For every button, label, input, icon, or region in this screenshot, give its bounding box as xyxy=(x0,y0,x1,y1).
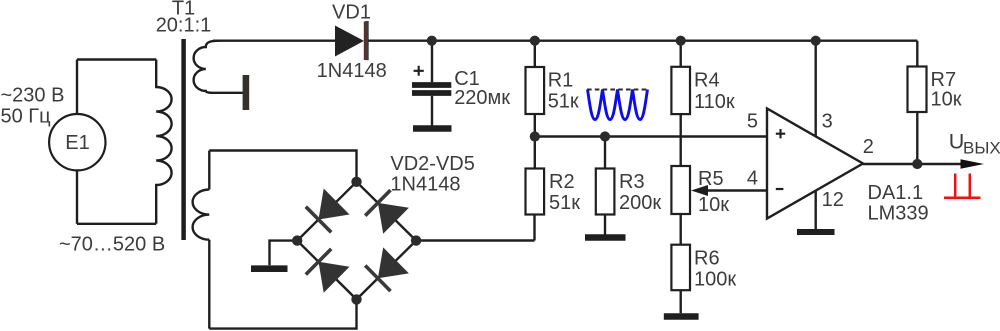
junction node R3-plus wire xyxy=(600,131,610,141)
svg-text:51к: 51к xyxy=(548,91,579,113)
resistor R3 bottom lead xyxy=(604,215,606,235)
svg-text:R3: R3 xyxy=(619,171,645,193)
bridge diode VD lower-right xyxy=(378,247,409,278)
op-amp minus sign xyxy=(776,188,784,190)
transformer T1 core xyxy=(181,39,186,240)
junction node R1-R2-plus wire xyxy=(530,131,540,141)
red output pulses icon xyxy=(944,174,981,198)
resistor R7 bottom lead xyxy=(916,112,918,164)
svg-text:10к: 10к xyxy=(698,194,729,216)
wire R5 wiper to minus input xyxy=(706,189,767,191)
ground under C1 xyxy=(413,125,452,131)
svg-text:LM339: LM339 xyxy=(868,202,929,224)
junction node rail-R4 xyxy=(676,36,686,46)
svg-text:4: 4 xyxy=(747,168,758,190)
bridge loop top wire xyxy=(209,151,356,182)
resistor R4 top lead xyxy=(680,41,682,67)
resistor R2 bottom lead xyxy=(533,215,535,241)
svg-text:R1: R1 xyxy=(548,70,574,92)
junction node bridge right xyxy=(411,235,421,245)
junction node bridge left xyxy=(292,235,302,245)
capacitor C1 top lead xyxy=(431,41,433,82)
svg-text:ВЫХ: ВЫХ xyxy=(963,139,1000,158)
junction node bridge top xyxy=(351,177,361,187)
wire top rail left of VD1 xyxy=(213,40,335,42)
resistor R2 body xyxy=(526,169,545,215)
svg-text:51к: 51к xyxy=(549,192,580,214)
svg-text:DA1.1: DA1.1 xyxy=(868,182,924,204)
output arrowhead xyxy=(961,159,985,168)
capacitor C1 bottom lead xyxy=(431,96,433,126)
resistor R1 body xyxy=(526,67,545,114)
junction node rail-C1 xyxy=(427,36,437,46)
svg-text:50 Гц: 50 Гц xyxy=(1,106,51,128)
svg-text:R6: R6 xyxy=(694,248,720,270)
ground under op-amp xyxy=(797,229,835,235)
capacitor C1 plus sign xyxy=(414,66,424,76)
resistor R3 top lead xyxy=(604,137,606,169)
wire top rail right of VD1 xyxy=(368,40,917,42)
bridge diode VD upper-right cathode bar xyxy=(365,190,390,216)
junction node rail-R1 xyxy=(530,36,540,46)
wire bridge right corner to R2 xyxy=(416,239,534,241)
bridge loop left lower wire xyxy=(208,240,210,329)
svg-text:1N4148: 1N4148 xyxy=(390,173,460,195)
svg-text:12: 12 xyxy=(822,189,844,211)
resistor R6 body xyxy=(671,245,690,291)
wire plus-input rail xyxy=(535,135,767,137)
bridge diode VD lower-right cathode bar xyxy=(365,266,390,292)
wire R4 to R5 xyxy=(680,114,682,166)
ground under R3 xyxy=(585,234,626,241)
svg-text:100к: 100к xyxy=(694,269,736,291)
bridge diamond wires xyxy=(297,182,416,300)
bridge loop left upper wire xyxy=(208,151,210,190)
resistor R1 top lead xyxy=(534,41,536,67)
wire R5 to R6 xyxy=(680,214,682,245)
svg-text:VD2-VD5: VD2-VD5 xyxy=(390,153,474,175)
R7 top lead is rail drop xyxy=(908,67,927,113)
svg-text:200к: 200к xyxy=(619,192,661,214)
bridge diode VD upper-left cathode bar xyxy=(306,207,331,233)
svg-text:2: 2 xyxy=(863,136,874,158)
bridge diode VD lower-left xyxy=(319,262,350,293)
resistor R6 bottom lead xyxy=(680,290,682,313)
wire top rail drop to R7 xyxy=(916,41,918,67)
generator E1 loop left wire xyxy=(76,60,78,115)
svg-text:3: 3 xyxy=(822,111,833,133)
svg-text:20:1:1: 20:1:1 xyxy=(156,15,212,37)
wire R1 to R2 through node xyxy=(534,114,536,169)
generator E1 loop bottom wire xyxy=(77,223,156,225)
junction node output-R7 xyxy=(912,159,922,169)
op-amp plus sign xyxy=(776,129,785,138)
svg-text:110к: 110к xyxy=(694,91,735,113)
blue sawtooth waveform xyxy=(588,90,648,120)
generator E1 circle xyxy=(49,114,105,170)
svg-text:10к: 10к xyxy=(931,88,962,110)
resistor R4 body xyxy=(671,67,690,114)
svg-text:~70…520 В: ~70…520 В xyxy=(59,234,165,256)
ground under R6 xyxy=(664,313,699,319)
resistor R3 body xyxy=(596,169,615,215)
op-amp pin3 wire xyxy=(815,41,817,137)
transformer T1 primary winding xyxy=(156,60,171,224)
bridge ground wire xyxy=(270,241,298,266)
bridge diode VD upper-right xyxy=(378,203,409,234)
op-amp pin12 wire xyxy=(815,191,817,229)
diode VD1 xyxy=(335,26,364,57)
bridge loop bottom wire xyxy=(209,299,356,328)
svg-text:~230 В: ~230 В xyxy=(1,85,65,107)
generator E1 loop left wire lower xyxy=(76,170,78,223)
svg-text:1N4148: 1N4148 xyxy=(317,60,387,82)
secondary top terminal bar xyxy=(243,75,250,110)
potentiometer R5 body xyxy=(671,166,690,214)
svg-text:U: U xyxy=(949,130,965,154)
ground at bridge left xyxy=(251,265,288,272)
junction node bridge bottom xyxy=(351,294,361,304)
svg-text:5: 5 xyxy=(747,111,758,133)
svg-text:R2: R2 xyxy=(549,171,575,193)
svg-text:R5: R5 xyxy=(698,168,724,190)
capacitor C1 top plate xyxy=(412,82,451,88)
diode VD1 cathode bar xyxy=(365,21,368,60)
bridge diode VD lower-left cathode bar xyxy=(306,249,331,275)
transformer T1 secondary bottom winding xyxy=(193,190,210,240)
svg-text:R4: R4 xyxy=(694,70,720,92)
junction node rail-pin3 xyxy=(811,36,821,46)
svg-text:E1: E1 xyxy=(65,132,89,154)
generator E1 loop top wire xyxy=(77,58,156,60)
diode VD1 cathode bar red edge xyxy=(364,22,366,61)
op-amp DA1.1 triangle xyxy=(767,109,863,219)
potentiometer R5 wiper arrow xyxy=(691,185,708,196)
capacitor C1 bottom plate xyxy=(412,90,451,96)
transformer T1 secondary top winding xyxy=(194,41,244,93)
bridge diode VD upper-left xyxy=(319,189,350,220)
dashed zero line over waveform xyxy=(587,89,649,91)
output wire xyxy=(863,163,962,165)
svg-text:VD1: VD1 xyxy=(332,2,371,24)
svg-text:220мк: 220мк xyxy=(454,87,510,109)
